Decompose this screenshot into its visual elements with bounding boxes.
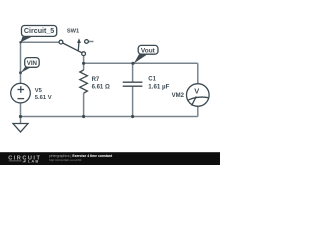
- wire C1 top lead: [132, 63, 134, 81]
- voltage source V5: [11, 83, 31, 103]
- switch SW1: [59, 38, 88, 55]
- svg-text:SW1: SW1: [67, 28, 79, 34]
- svg-text:http://circuitlab.com/c84: http://circuitlab.com/c84: [49, 158, 82, 162]
- wire VM2 top lead: [197, 63, 199, 83]
- svg-text:R7: R7: [92, 77, 100, 83]
- svg-text:C1: C1: [148, 77, 156, 83]
- ground: [13, 124, 28, 133]
- node junction dots: [19, 41, 135, 118]
- svg-text:LAB: LAB: [28, 158, 40, 163]
- capacitor C1: [123, 82, 143, 86]
- svg-text:VM2: VM2: [172, 93, 185, 99]
- footer CircuitLab logo: [8, 156, 41, 164]
- wire switch stub: [88, 41, 93, 43]
- svg-text:VIN: VIN: [27, 60, 38, 67]
- svg-text:Vout: Vout: [141, 47, 156, 54]
- node Vout flag: [134, 45, 158, 63]
- footer bar: [0, 152, 220, 165]
- svg-text:V: V: [194, 86, 199, 95]
- svg-text:Circuit_5: Circuit_5: [24, 27, 54, 35]
- node VIN flag: [21, 58, 39, 73]
- svg-text:V5: V5: [35, 88, 43, 94]
- svg-text:6.61 Ω: 6.61 Ω: [92, 84, 110, 90]
- resistor R7: [80, 70, 88, 93]
- wire R7 bottom lead: [83, 93, 85, 116]
- wire mid rail: [84, 62, 198, 64]
- wire left vertical bottom: [20, 103, 22, 117]
- wire ground stub: [20, 117, 22, 124]
- wire left vertical top: [20, 42, 22, 83]
- svg-text:5.61 V: 5.61 V: [35, 95, 52, 101]
- wire R7 top lead: [83, 63, 85, 70]
- voltmeter VM2: [187, 84, 210, 107]
- wire C1 bottom lead: [132, 87, 134, 117]
- wire bottom rail: [21, 116, 198, 118]
- svg-text:1.61 µF: 1.61 µF: [148, 83, 169, 90]
- wire VM2 bottom lead: [197, 106, 199, 116]
- wire switch pole to mid rail: [83, 56, 85, 64]
- node Circuit_5 flag: [21, 26, 57, 43]
- wire top rail: [21, 41, 60, 43]
